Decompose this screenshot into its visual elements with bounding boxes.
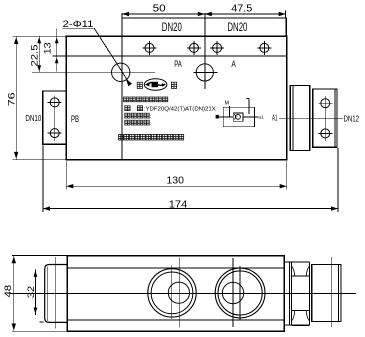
svg-text:48: 48 bbox=[3, 285, 14, 298]
svg-text:M: M bbox=[225, 100, 230, 106]
hydraulic symbol: pilot-operated check valve bbox=[223, 107, 254, 127]
svg-text:2-Φ11: 2-Φ11 bbox=[63, 19, 94, 29]
nameplate text line 2 model no. bbox=[125, 106, 130, 111]
svg-text:DN10: DN10 bbox=[25, 113, 41, 123]
svg-text::YDF20Q/42(T)AT(DN)21X: :YDF20Q/42(T)AT(DN)21X bbox=[144, 106, 216, 112]
bottom view: washer/collar at body right bbox=[288, 262, 290, 325]
top view: hole centerline y=72.3 bbox=[32, 71, 155, 73]
bottom view: end cylinder (DN12 connector) bbox=[312, 265, 341, 322]
nameplate logo (brand oval) bbox=[137, 82, 142, 88]
dimension 48 (body height) bbox=[13, 256, 15, 332]
svg-text::: : bbox=[150, 114, 151, 120]
hole 2-x-phi11 #1 (thin circle) bbox=[112, 63, 130, 81]
bottom view: left flange outline bbox=[45, 265, 68, 323]
dimension 50 (strip left cell width) bbox=[122, 13, 205, 15]
svg-text:32: 32 bbox=[26, 286, 37, 299]
dimension 76 (block height) bbox=[15, 36, 17, 160]
bolt hole top row #2 bbox=[190, 43, 199, 52]
fitting bolt circle lower bbox=[321, 129, 330, 138]
svg-text:76: 76 bbox=[6, 92, 17, 106]
fitting bolt circle upper bbox=[321, 99, 330, 108]
svg-text:50: 50 bbox=[153, 3, 167, 14]
top view: strip divider / port A centerline bbox=[204, 13, 206, 89]
bolt hole top row #3 bbox=[213, 43, 222, 52]
dimension 130 (block width) bbox=[66, 185, 286, 187]
svg-text:PB: PB bbox=[71, 114, 79, 124]
dimension 174 (overall length) bbox=[43, 208, 338, 210]
nameplate text line 3 (factory date) bbox=[125, 113, 130, 118]
nameplate text line 4 (factory serial) bbox=[125, 120, 130, 125]
right fitting flange section bbox=[290, 86, 309, 151]
dimension 22.5 (hole centerline offset) bbox=[38, 36, 40, 72]
bottom view: upper inner edge bbox=[67, 267, 284, 269]
top view: mounting strip (DN20 port strip) bbox=[122, 18, 286, 37]
bolt hole top row #4 bbox=[260, 43, 269, 52]
svg-text:PA: PA bbox=[174, 59, 182, 69]
flange vertical centerline bbox=[54, 96, 56, 141]
bottom view: hex nut bbox=[292, 261, 310, 263]
svg-text:13: 13 bbox=[43, 42, 54, 54]
svg-text:174: 174 bbox=[169, 200, 188, 211]
svg-text:130: 130 bbox=[166, 176, 184, 187]
top view: left vertical edge line through block (x=121.8) bbox=[121, 13, 123, 160]
dimension 47.5 (strip right cell width) bbox=[205, 13, 286, 15]
bottom view: flange vertical centerline bbox=[55, 257, 57, 329]
flange bottom dash mark bbox=[40, 321, 44, 323]
bottom view: lower inner edge bbox=[67, 319, 284, 321]
svg-text:A: A bbox=[231, 59, 236, 69]
svg-text:a1: a1 bbox=[258, 115, 264, 121]
port A1 centerline bbox=[279, 117, 343, 119]
bottom view: horizontal centerline bbox=[10, 292, 356, 294]
svg-text:A1: A1 bbox=[272, 113, 278, 123]
flange bolt circle upper bbox=[50, 98, 59, 107]
bottom view: port bore group 2 (counterbore + hole) bbox=[215, 268, 265, 318]
svg-text::: : bbox=[150, 121, 151, 127]
nameplate text line 5 (company name) bbox=[119, 134, 124, 140]
dimension 13 (edge line offset) bbox=[56, 29, 58, 72]
svg-text:22.5: 22.5 bbox=[30, 45, 41, 67]
bottom view: body outline bbox=[67, 256, 284, 332]
svg-text:DN20: DN20 bbox=[162, 22, 182, 34]
left flange (PB/DN10 port) outline bbox=[43, 91, 67, 144]
bottom view: port bore group 1 (counterbore + hole) bbox=[148, 269, 196, 317]
top view: horizontal edge line y=56.2 bbox=[52, 55, 286, 57]
top view: valve block body outline bbox=[66, 36, 286, 159]
nameplate text line 1 bbox=[124, 97, 129, 102]
fitting vertical centerline bbox=[324, 96, 326, 141]
hole 2-x-phi11 #2 (thin circle) bbox=[196, 64, 213, 81]
svg-text:DN12: DN12 bbox=[344, 113, 360, 123]
svg-text:DN20: DN20 bbox=[227, 22, 247, 34]
flange bolt circle lower bbox=[50, 129, 59, 138]
svg-text:47.5: 47.5 bbox=[231, 3, 252, 14]
bolt hole top row #1 bbox=[145, 43, 154, 52]
right fitting body section bbox=[313, 89, 337, 147]
dimension 32 (flange height) bbox=[34, 270, 36, 315]
